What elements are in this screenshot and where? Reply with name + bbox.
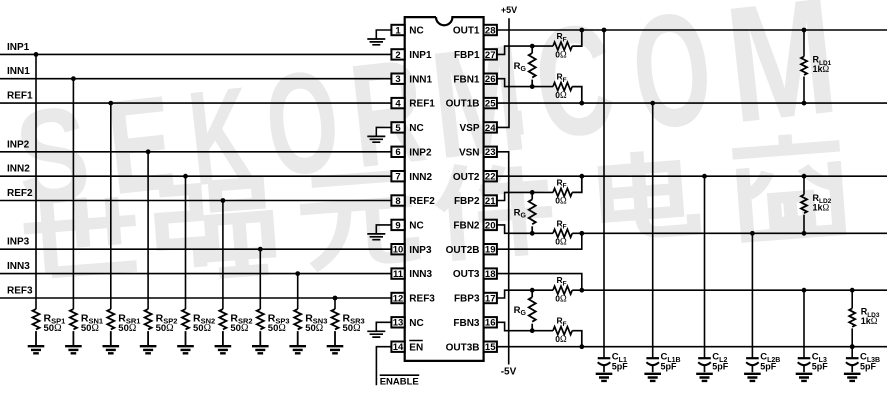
svg-text:FBN2: FBN2	[453, 221, 480, 232]
svg-text:1kΩ: 1kΩ	[813, 64, 830, 74]
svg-text:5: 5	[395, 123, 401, 134]
svg-text:50Ω: 50Ω	[268, 323, 286, 334]
svg-text:REF3: REF3	[409, 294, 435, 305]
svg-text:ENABLE: ENABLE	[380, 377, 419, 388]
ground pin 9	[367, 234, 385, 240]
svg-text:50Ω: 50Ω	[343, 323, 361, 334]
wire OUT3	[497, 274, 887, 291]
svg-text:FBN3: FBN3	[453, 318, 480, 329]
wire RSR1 column	[110, 103, 112, 309]
svg-text:4: 4	[395, 99, 401, 110]
node CL1 tap	[602, 28, 607, 33]
svg-text:NC: NC	[409, 318, 423, 329]
node RLD1 top	[802, 28, 807, 33]
node INN1 junction	[71, 76, 76, 81]
node INN3 junction	[295, 271, 300, 276]
svg-text:27: 27	[485, 50, 496, 61]
svg-text:-5V: -5V	[501, 366, 517, 377]
wire CL3B bus	[851, 347, 853, 359]
svg-text:18: 18	[485, 269, 496, 280]
pin 1 (NC)	[391, 25, 423, 37]
svg-text:FBP3: FBP3	[454, 294, 480, 305]
svg-text:FBP2: FBP2	[454, 196, 480, 207]
capacitor CL3 5pF	[798, 357, 811, 359]
svg-text:50Ω: 50Ω	[193, 323, 211, 334]
svg-text:INN3: INN3	[409, 269, 432, 280]
svg-text:6: 6	[395, 147, 400, 158]
resistor RF (top, 0ohm) channel 1	[553, 30, 582, 50]
resistor RSN1 50ohm	[70, 309, 77, 346]
pin 12 (REF3)	[391, 293, 435, 305]
ground CL3	[796, 374, 813, 381]
wire REF1	[0, 102, 391, 104]
svg-text:8: 8	[395, 196, 400, 207]
svg-text:1: 1	[395, 25, 401, 36]
wire RSP3 column	[259, 249, 261, 309]
ground RSR1	[103, 346, 120, 353]
ground RSR3	[327, 346, 344, 353]
ground CL2	[696, 374, 713, 381]
svg-text:14: 14	[393, 342, 404, 353]
svg-text:5pF: 5pF	[860, 362, 877, 372]
pin 8 (REF2)	[391, 195, 435, 207]
pin 15 (OUT3B)	[446, 342, 497, 354]
pin 28 (OUT1)	[453, 25, 497, 37]
svg-text:0Ω: 0Ω	[555, 294, 567, 304]
wire INN2	[0, 175, 391, 177]
wire FBP2	[497, 192, 553, 200]
wire RSN2 column	[185, 176, 187, 309]
svg-text:OUT2B: OUT2B	[446, 245, 480, 256]
svg-text:INN2: INN2	[7, 164, 30, 175]
label ENABLE (with overbar)	[380, 374, 420, 376]
resistor RSN3 50ohm	[294, 309, 301, 346]
svg-text:OUT1B: OUT1B	[446, 99, 480, 110]
wire pin 9 NC to ground	[376, 225, 391, 234]
resistor RLD1 1kohm	[803, 30, 805, 57]
svg-text:10: 10	[393, 245, 404, 256]
node CL3 tap	[802, 288, 807, 293]
svg-text:3: 3	[395, 74, 400, 85]
capacitor CL1B 5pF	[646, 357, 659, 359]
pin 18 (OUT3)	[453, 268, 497, 280]
capacitor CL1 5pF	[598, 357, 611, 359]
wire OUT1B	[497, 102, 887, 104]
ground CL3B	[844, 374, 861, 381]
svg-text:FBP1: FBP1	[454, 50, 480, 61]
pin 22 (OUT2)	[453, 171, 497, 183]
capacitor CL3B 5pF	[846, 357, 859, 359]
svg-text:REF2: REF2	[7, 188, 33, 199]
resistor RF (bottom, 0ohm) channel 1	[553, 83, 582, 104]
node INP3 junction	[258, 247, 263, 252]
svg-text:5pF: 5pF	[661, 362, 678, 372]
node INN2 junction	[183, 174, 188, 179]
wire RSP1 column	[35, 54, 37, 309]
wire +5V supply to pin 24 VSP	[497, 18, 509, 127]
svg-text:5pF: 5pF	[612, 362, 629, 372]
node CL1B tap	[650, 101, 655, 106]
node CL2B tap	[750, 231, 755, 236]
svg-text:NC: NC	[409, 26, 423, 37]
ground RSN3	[289, 346, 306, 353]
ground pin 5	[367, 136, 385, 142]
pin 7 (INN2)	[391, 171, 432, 183]
resistor RF (bottom, 0ohm) channel 2	[553, 229, 582, 237]
pin 6 (INP2)	[391, 147, 432, 159]
pin 24 (VSP)	[459, 122, 496, 134]
resistor RSR3 50ohm	[332, 309, 339, 346]
svg-text:2: 2	[395, 50, 400, 61]
node CL3B tap	[850, 344, 855, 349]
svg-text:NC: NC	[409, 123, 423, 134]
svg-text:11: 11	[393, 269, 404, 280]
pin 20 (FBN2)	[453, 220, 497, 232]
svg-text:REF3: REF3	[7, 286, 33, 297]
ground RSR2	[215, 346, 232, 353]
ground CL2B	[744, 374, 761, 381]
svg-text:INP1: INP1	[409, 50, 432, 61]
pin 14 (EN)	[391, 341, 423, 354]
svg-text:50Ω: 50Ω	[44, 323, 62, 334]
pin 10 (INP3)	[391, 244, 432, 256]
resistor RG channel 1	[531, 46, 533, 53]
wire OUT2B	[497, 233, 887, 249]
svg-text:INN1: INN1	[7, 66, 30, 77]
node INP1 junction	[34, 52, 39, 57]
svg-text:1kΩ: 1kΩ	[861, 316, 878, 326]
ground RSN2	[177, 346, 194, 353]
wire FBN2	[497, 225, 553, 233]
svg-text:24: 24	[485, 123, 496, 134]
svg-text:21: 21	[485, 196, 496, 207]
ground RSP1	[28, 346, 45, 353]
wire RSN1 column	[72, 79, 74, 309]
pin 27 (FBP1)	[454, 49, 497, 61]
wire INP1	[0, 53, 391, 55]
svg-text:17: 17	[485, 293, 496, 304]
wire OUT1	[497, 29, 887, 31]
node REF3 junction	[333, 296, 338, 301]
node RG top junction ch1	[530, 44, 535, 49]
resistor RLD3 1kohm	[851, 290, 853, 308]
ground CL1	[596, 374, 613, 381]
svg-text:INP1: INP1	[7, 42, 30, 53]
wire CL1 bus	[603, 30, 605, 358]
svg-text:20: 20	[485, 220, 496, 231]
node RG bottom junction ch2	[530, 231, 535, 236]
svg-text:EN: EN	[409, 342, 423, 353]
node RF bottom to OUT3B	[579, 344, 584, 349]
resistor RG channel 2	[531, 192, 533, 199]
svg-text:0Ω: 0Ω	[555, 237, 567, 247]
wire pin 5 NC to ground	[376, 127, 391, 136]
svg-text:INP3: INP3	[409, 245, 432, 256]
svg-text:FBN1: FBN1	[453, 74, 480, 85]
svg-text:15: 15	[485, 342, 496, 353]
wire RSR3 column	[334, 298, 336, 309]
wire -5V supply to pin 23 VSN	[497, 152, 509, 365]
wire EN/ENABLE	[376, 347, 391, 386]
pin 3 (INN1)	[391, 74, 432, 86]
svg-text:0Ω: 0Ω	[555, 334, 567, 344]
wire FBP1	[497, 46, 553, 54]
node RF top to OUT1	[579, 28, 584, 33]
wire CL1B bus	[652, 103, 654, 358]
svg-text:5pF: 5pF	[760, 362, 777, 372]
ground pin 13	[367, 331, 385, 337]
pin 21 (FBP2)	[454, 195, 497, 207]
resistor RSR1 50ohm	[107, 309, 114, 346]
node REF2 junction	[221, 198, 226, 203]
svg-text:28: 28	[485, 25, 496, 36]
svg-text:1kΩ: 1kΩ	[813, 202, 830, 212]
wire REF3	[0, 297, 391, 299]
resistor RSR2 50ohm	[219, 309, 226, 346]
svg-text:22: 22	[485, 172, 496, 183]
svg-text:23: 23	[485, 147, 496, 158]
pin 5 (NC)	[391, 122, 423, 134]
wire RSP2 column	[147, 152, 149, 309]
node RF bottom to OUT1B	[579, 101, 584, 106]
ground pin 1	[367, 39, 385, 45]
IC U1 body (28-pin package outline with notch)	[405, 17, 484, 361]
svg-text:50Ω: 50Ω	[230, 323, 248, 334]
svg-text:OUT3: OUT3	[453, 269, 480, 280]
resistor RF (bottom, 0ohm) channel 3	[553, 327, 582, 347]
node RLD3 top	[850, 288, 855, 293]
resistor RSN2 50ohm	[182, 309, 189, 346]
pin 11 (INN3)	[391, 268, 432, 280]
wire INP2	[0, 151, 391, 153]
capacitor CL2 5pF	[698, 357, 711, 359]
ground RSP3	[252, 346, 269, 353]
svg-text:VSN: VSN	[459, 147, 480, 158]
resistor RF (top, 0ohm) channel 2	[553, 176, 582, 196]
svg-text:0Ω: 0Ω	[555, 90, 567, 100]
svg-text:26: 26	[485, 74, 496, 85]
wire INP3	[0, 248, 391, 250]
svg-text:50Ω: 50Ω	[156, 323, 174, 334]
node RG bottom junction ch3	[530, 328, 535, 333]
svg-text:REF1: REF1	[409, 99, 435, 110]
svg-text:50Ω: 50Ω	[305, 323, 323, 334]
pin 26 (FBN1)	[453, 74, 497, 86]
wire REF2	[0, 200, 391, 202]
svg-text:12: 12	[393, 293, 404, 304]
resistor RSP1 50ohm	[33, 309, 40, 346]
svg-text:25: 25	[485, 99, 496, 110]
wire pin 1 NC to ground	[376, 30, 391, 39]
node RG top junction ch2	[530, 190, 535, 195]
svg-text:VSP: VSP	[459, 123, 479, 134]
pin 13 (NC)	[391, 317, 423, 329]
svg-text:OUT2: OUT2	[453, 172, 480, 183]
wire FBP3	[497, 290, 553, 298]
svg-text:INP2: INP2	[409, 147, 432, 158]
wire OUT2	[497, 175, 887, 177]
node REF1 junction	[108, 101, 113, 106]
svg-text:50Ω: 50Ω	[81, 323, 99, 334]
wire RSR2 column	[222, 201, 224, 310]
svg-text:INN3: INN3	[7, 261, 30, 272]
svg-text:+5V: +5V	[501, 5, 517, 15]
svg-text:13: 13	[393, 318, 404, 329]
resistor RSP2 50ohm	[145, 309, 152, 346]
svg-text:19: 19	[485, 245, 496, 256]
node CL2 tap	[702, 174, 707, 179]
wire pin 13 NC to ground	[376, 322, 391, 331]
svg-text:5pF: 5pF	[812, 362, 829, 372]
node RF bottom to OUT2B	[579, 231, 584, 236]
wire CL2 bus	[704, 176, 706, 358]
ground RSP2	[140, 346, 157, 353]
svg-text:INP3: INP3	[7, 237, 30, 248]
wire RSN3 column	[297, 274, 299, 310]
svg-text:5pF: 5pF	[712, 362, 729, 372]
svg-text:M: M	[718, 0, 845, 158]
pin 17 (FBP3)	[454, 293, 497, 305]
svg-text:0Ω: 0Ω	[555, 196, 567, 206]
pin 23 (VSN)	[459, 147, 497, 159]
wire INN3	[0, 273, 391, 275]
wire FBN1	[497, 79, 553, 87]
node RF top to OUT2	[579, 174, 584, 179]
wire OUT3B	[497, 346, 887, 348]
node RLD1 bottom	[802, 101, 807, 106]
ground RSN1	[65, 346, 82, 353]
svg-text:7: 7	[395, 172, 400, 183]
svg-text:REF2: REF2	[409, 196, 435, 207]
svg-text:NC: NC	[409, 221, 423, 232]
resistor RLD2 1kohm	[803, 176, 805, 195]
pin 2 (INP1)	[391, 49, 432, 61]
svg-text:INN1: INN1	[409, 74, 432, 85]
wire FBN3	[497, 322, 553, 330]
pin 9 (NC)	[391, 220, 423, 232]
svg-text:INP2: INP2	[7, 139, 30, 150]
resistor RG channel 3	[531, 290, 533, 297]
svg-text:9: 9	[395, 220, 400, 231]
node RLD3 bottom	[850, 344, 855, 349]
pin 16 (FBN3)	[453, 317, 497, 329]
node RF top to OUT3	[579, 288, 584, 293]
wire INN1	[0, 78, 391, 80]
resistor RF (top, 0ohm) channel 3	[553, 286, 582, 294]
pin 4 (REF1)	[391, 98, 435, 110]
ground CL1B	[644, 374, 661, 381]
svg-text:50Ω: 50Ω	[118, 323, 136, 334]
svg-text:0Ω: 0Ω	[555, 49, 567, 59]
wire CL2B bus	[751, 233, 753, 358]
pin 19 (OUT2B)	[446, 244, 497, 256]
svg-text:16: 16	[485, 318, 496, 329]
node RLD2 top	[802, 174, 807, 179]
node RG top junction ch3	[530, 288, 535, 293]
svg-text:INN2: INN2	[409, 172, 432, 183]
node RG bottom junction ch1	[530, 84, 535, 89]
resistor RSP3 50ohm	[257, 309, 264, 346]
pin 25 (OUT1B)	[446, 98, 497, 110]
wire CL3 bus	[803, 290, 805, 358]
capacitor CL2B 5pF	[746, 357, 759, 359]
node RLD2 bottom	[802, 231, 807, 236]
svg-text:OUT3B: OUT3B	[446, 342, 480, 353]
svg-text:REF1: REF1	[7, 91, 33, 102]
node INP2 junction	[146, 149, 151, 154]
svg-text:OUT1: OUT1	[453, 26, 480, 37]
